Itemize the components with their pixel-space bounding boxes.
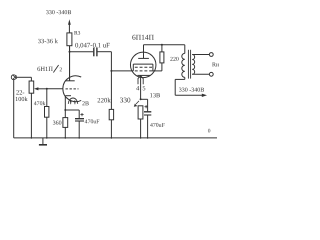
- svg-text:220: 220: [170, 57, 179, 63]
- svg-text:13В: 13В: [150, 92, 161, 99]
- svg-text:470uF: 470uF: [150, 123, 166, 129]
- svg-text:330 -340В: 330 -340В: [179, 88, 205, 94]
- svg-text:2В: 2В: [82, 101, 89, 107]
- svg-text:330 -340В: 330 -340В: [46, 10, 72, 16]
- svg-text:R3: R3: [74, 31, 81, 37]
- svg-text:470uF: 470uF: [85, 119, 101, 125]
- svg-text:2: 2: [59, 67, 62, 73]
- svg-text:360: 360: [53, 121, 62, 127]
- svg-text:220k: 220k: [97, 97, 111, 104]
- svg-text:Rн: Rн: [212, 62, 220, 68]
- svg-text:330: 330: [120, 96, 131, 104]
- svg-text:470k: 470k: [34, 101, 46, 107]
- svg-text:100k: 100k: [15, 96, 28, 103]
- svg-text:5: 5: [142, 85, 145, 92]
- svg-text:0: 0: [208, 128, 211, 134]
- svg-text:0,047-0,1 uF: 0,047-0,1 uF: [75, 42, 110, 49]
- svg-text:6Н1П: 6Н1П: [37, 66, 53, 73]
- svg-text:33-36 k: 33-36 k: [38, 38, 59, 45]
- svg-text:6П14П: 6П14П: [132, 33, 155, 42]
